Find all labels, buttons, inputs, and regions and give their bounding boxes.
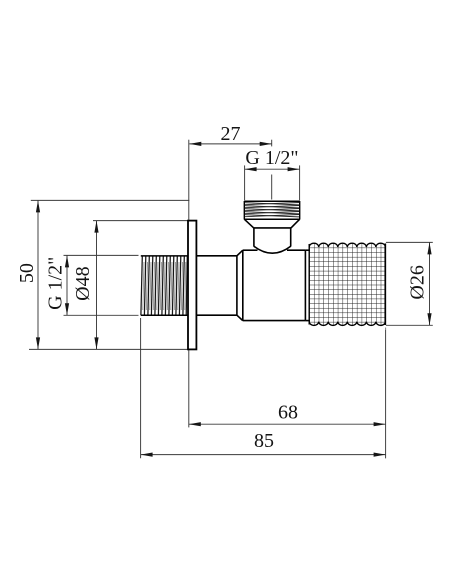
inlet pipe thread G1/2 (left, hatched)	[141, 256, 188, 315]
extension line: flange left face (lower, to dim 68)	[188, 349, 190, 427]
knurled handle diameter 26	[309, 239, 385, 331]
outlet chamfer	[244, 219, 299, 228]
outlet thread G1/2 (top, male)	[244, 201, 299, 219]
stem between body and handle	[305, 250, 310, 320]
svg-text:85: 85	[254, 430, 274, 452]
body neck between flange and body	[196, 256, 237, 315]
fillet arc neck-to-body	[254, 246, 291, 253]
outlet centerline stub	[271, 175, 273, 200]
dimension G 1/2 top	[245, 147, 300, 201]
svg-text:G 1/2": G 1/2"	[44, 257, 66, 310]
valve body	[243, 250, 306, 320]
wall flange diameter 48	[188, 221, 196, 350]
svg-text:27: 27	[221, 123, 241, 145]
outlet neck cylinder	[254, 228, 291, 247]
dimension 50	[16, 200, 190, 349]
extension line: flange left face (upper, to dim 27)	[188, 140, 190, 221]
svg-text:Ø26: Ø26	[407, 265, 429, 299]
extension line: inlet pipe end (to dim 85)	[140, 318, 142, 458]
dimension 85	[141, 430, 386, 457]
svg-text:68: 68	[278, 402, 298, 424]
dimension diameter 26	[386, 242, 433, 325]
dimension 27	[189, 123, 271, 147]
svg-text:Ø48: Ø48	[72, 266, 94, 300]
dimension G 1/2 left	[44, 255, 138, 315]
extension line: handle right end (to dims 68/85)	[385, 328, 387, 459]
chamfer neck to body	[237, 250, 243, 320]
svg-text:G 1/2": G 1/2"	[245, 147, 298, 169]
dimension 68	[189, 402, 386, 427]
dimension diameter 48	[72, 221, 188, 350]
svg-text:50: 50	[16, 263, 38, 283]
